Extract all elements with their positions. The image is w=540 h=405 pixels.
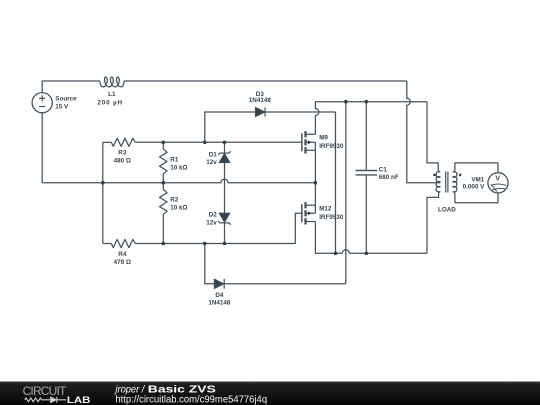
svg-text:M9: M9 [319,134,328,141]
logo resistor-diode icon [25,397,66,403]
wire secondary bottom lead to voltmeter [453,192,498,203]
svg-text:479 Ω: 479 Ω [114,259,131,266]
svg-text:D1: D1 [209,151,218,158]
voltmeter VM1 [488,173,508,193]
svg-text:D4: D4 [215,292,224,299]
resistor R4 [111,239,135,247]
wire secondary top lead to voltmeter [453,163,498,173]
resistor R1 [160,142,168,182]
svg-text:1N4148: 1N4148 [249,97,272,104]
capacitor C1 [356,102,378,254]
svg-text:15 V: 15 V [55,103,69,110]
inductor L1 [100,77,124,87]
svg-text:LAB: LAB [67,396,91,405]
transformer LOAD secondary winding [453,172,457,192]
wire primary top lead [427,102,440,172]
wire primary bottom lead [427,192,440,254]
svg-text:V: V [495,176,500,183]
zener diode D1 [218,142,231,213]
svg-text:D2: D2 [209,212,218,219]
zener diode D2 [218,213,231,243]
svg-text:R1: R1 [170,156,179,163]
svg-text:R2: R2 [170,196,179,203]
wire source bottom + mid rail (hops D1/D2) [42,113,315,183]
node R2 bottom [162,242,166,246]
mosfet M12 IRF9530 [302,202,316,224]
resistor R3 [111,138,135,146]
node R1/R2 mid [162,181,166,185]
wire M9 drain up (hops D3 wire) to top node rail [315,102,427,135]
diode D4 [214,279,224,289]
wire gate-top rail to M9 gate [135,141,301,143]
svg-text:http://circuitlab.com/c99me547: http://circuitlab.com/c99me54776j4q [115,394,267,405]
node D4 anode tap [203,242,207,246]
svg-text:0.000 V: 0.000 V [463,183,486,190]
svg-text:10 kΩ: 10 kΩ [170,204,187,211]
svg-text:200 µH: 200 µH [97,99,123,106]
resistor R2 [160,183,168,244]
svg-text:Source: Source [55,95,77,102]
svg-text:12v: 12v [206,159,217,166]
svg-text:12v: 12v [206,220,217,227]
svg-text:LOAD: LOAD [438,206,456,213]
wire M12 drain down + bottom node rail (hops D4 wire) [315,222,427,254]
svg-text:L1: L1 [108,91,116,98]
node D1 cathode tap [223,141,227,145]
wire gate-bottom rail to M12 gate [135,213,301,243]
wire gate-bottom rail left lead [103,243,112,245]
node source-/R3/R4/mid-rail [101,181,105,185]
wire D4 cathode up to M9 drain rail [224,102,346,284]
wire R3-R4 left vertical [102,142,104,243]
transformer primary phase dot [433,174,436,177]
wire M9 source down to M12 [314,150,316,205]
svg-text:IRF9530: IRF9530 [319,143,344,150]
svg-text:10 kΩ: 10 kΩ [170,164,187,171]
wire gate-top rail left lead [103,141,112,143]
svg-text:C1: C1 [379,166,388,173]
node C1 bottom rail [365,252,369,256]
svg-text:M12: M12 [319,206,332,213]
diode D3 branch wires [205,112,256,142]
svg-text:1N4148: 1N4148 [208,299,231,306]
svg-text:CIRCUIT: CIRCUIT [23,384,67,398]
svg-text:R4: R4 [118,251,127,258]
voltage source V1 "Source 15 V" [32,93,52,113]
svg-text:480 Ω: 480 Ω [114,158,131,165]
wire source top to inductor [42,81,100,93]
diode D4 branch wires [205,244,215,284]
node D3-bottom rail [334,252,338,256]
transformer secondary phase dot [459,174,462,177]
node D3 anode tap [203,141,207,145]
diode D3 [255,107,265,116]
wire D3 cathode down to M12 drain rail [265,112,335,253]
wire inductor to top-right corner [124,80,407,82]
node R1 top [162,141,166,145]
svg-text:R3: R3 [118,150,127,157]
footer bar [0,382,540,405]
wire center-tap drop (hops rail) [407,81,440,183]
transformer LOAD primary winding [436,172,440,192]
mosfet M9 IRF9530 [302,131,316,153]
node D2 cathode tap [223,242,227,246]
transformer core [446,172,448,193]
node C1 top rail [365,100,369,104]
svg-text:IRF9530: IRF9530 [319,214,344,221]
node M9 source / mid rail [314,181,318,185]
node D4-top rail [344,100,348,104]
svg-text:680 nF: 680 nF [379,174,399,181]
